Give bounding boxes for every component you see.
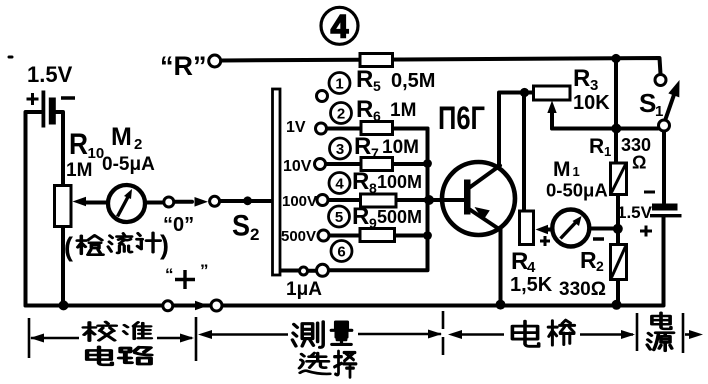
svg-text:“R”: “R” (160, 51, 207, 81)
svg-text:7: 7 (371, 145, 379, 161)
svg-text:S: S (639, 88, 656, 118)
svg-text:M: M (111, 123, 132, 151)
svg-text:”: ” (200, 261, 209, 280)
svg-text:1μA: 1μA (286, 279, 322, 300)
svg-text:10V: 10V (283, 158, 312, 175)
svg-text:5: 5 (373, 78, 381, 94)
svg-text:3: 3 (336, 141, 344, 158)
svg-text:R: R (589, 135, 604, 158)
svg-text:100M: 100M (377, 172, 422, 192)
svg-text:0-5μA: 0-5μA (102, 154, 155, 175)
svg-text:1,5K: 1,5K (510, 274, 553, 296)
svg-text:Ω: Ω (632, 153, 646, 173)
svg-text:): ) (160, 230, 169, 260)
svg-text:R: R (69, 128, 88, 161)
svg-text:10K: 10K (573, 92, 610, 114)
svg-text:1V: 1V (286, 119, 306, 136)
svg-text:4: 4 (335, 176, 344, 193)
svg-text:1: 1 (335, 76, 343, 93)
svg-text:1M: 1M (390, 100, 416, 121)
svg-text:0,5M: 0,5M (391, 70, 435, 92)
svg-text:R: R (580, 247, 597, 273)
svg-text:1.5V: 1.5V (617, 203, 653, 222)
svg-text:330Ω: 330Ω (559, 279, 606, 300)
svg-text:R: R (354, 133, 371, 160)
svg-text:2: 2 (134, 136, 142, 153)
svg-text:2: 2 (596, 258, 604, 274)
svg-text:R: R (352, 168, 369, 195)
svg-text:2: 2 (250, 225, 259, 244)
svg-text:6: 6 (337, 244, 345, 261)
svg-text:1: 1 (604, 144, 611, 159)
svg-text:R: R (511, 248, 528, 275)
svg-text:500V: 500V (281, 228, 316, 245)
svg-text:S: S (232, 210, 250, 243)
svg-text:M: M (553, 158, 571, 181)
svg-text:R: R (356, 96, 373, 123)
svg-text:6: 6 (373, 108, 381, 124)
svg-text:8: 8 (369, 180, 377, 196)
svg-text:1.5V: 1.5V (27, 62, 73, 87)
svg-text:5: 5 (335, 209, 343, 226)
svg-text:9: 9 (369, 215, 377, 231)
svg-text:2: 2 (337, 106, 345, 123)
svg-text:500M: 500M (377, 207, 422, 227)
svg-text:R: R (352, 203, 369, 230)
svg-text:1: 1 (655, 103, 663, 120)
svg-text:“: “ (165, 265, 174, 284)
svg-text:4: 4 (331, 9, 349, 45)
svg-text:(: ( (64, 232, 73, 262)
svg-text:10M: 10M (382, 137, 419, 158)
svg-text:R: R (356, 66, 373, 93)
svg-text:1M: 1M (66, 160, 92, 181)
svg-text:100V: 100V (282, 193, 317, 210)
svg-text:1: 1 (573, 164, 580, 179)
svg-text:0-50μA: 0-50μA (546, 180, 608, 201)
svg-text:П6Г: П6Г (438, 100, 485, 136)
svg-text:R: R (573, 65, 590, 92)
